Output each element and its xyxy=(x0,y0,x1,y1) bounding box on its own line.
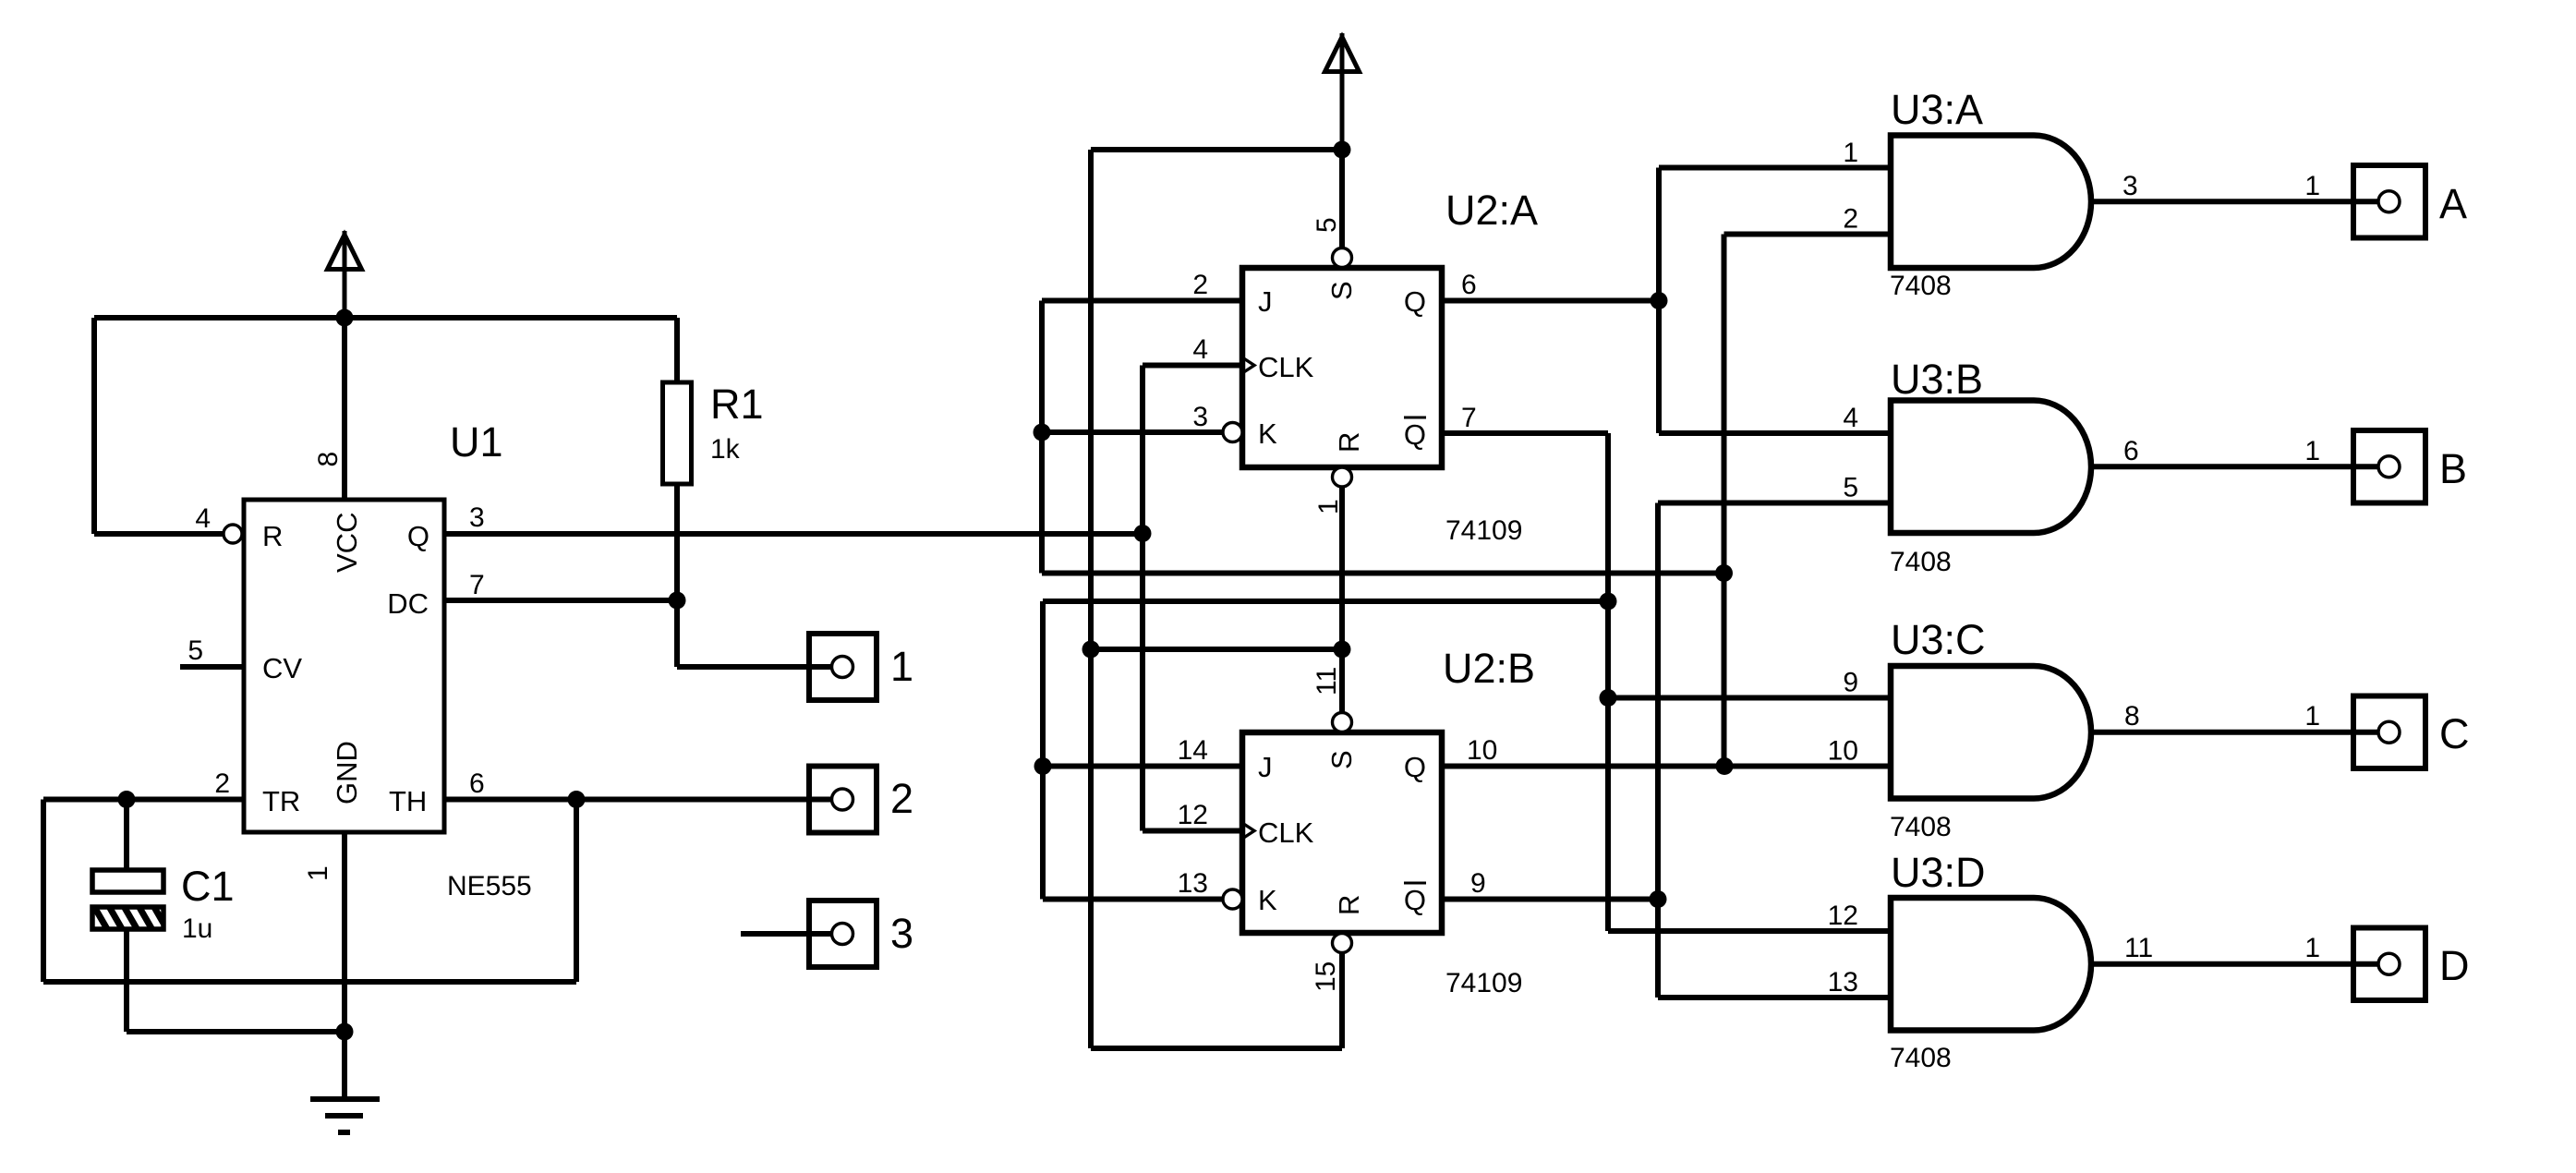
svg-text:10: 10 xyxy=(1467,735,1497,766)
svg-text:B: B xyxy=(2439,445,2467,492)
svg-text:2: 2 xyxy=(890,775,913,822)
wire pin15 return xyxy=(1091,1046,1342,1051)
svg-text:1: 1 xyxy=(2304,171,2320,201)
svg-text:12: 12 xyxy=(1178,800,1208,830)
wire U1 pin 7 (DC) xyxy=(444,598,677,603)
wire rail to pin 11 / pin 1 xyxy=(1091,647,1342,652)
wire to terminal 1 xyxy=(677,664,834,670)
svg-text:U3:D: U3:D xyxy=(1891,849,1986,896)
svg-text:10: 10 xyxy=(1828,736,1858,767)
AND gate U3:A 7408 xyxy=(1891,136,2091,269)
svg-text:2: 2 xyxy=(1843,204,1858,235)
svg-text:7408: 7408 xyxy=(1890,547,1952,577)
svg-text:S: S xyxy=(1325,750,1358,769)
junction TR / C1 xyxy=(118,791,136,808)
ground symbol xyxy=(310,1099,380,1132)
wire U3:C pin 8 output to terminal C xyxy=(2091,730,2377,735)
svg-text:1k: 1k xyxy=(710,434,741,465)
wire U1 pin 3 (Q) to flip-flop clocks xyxy=(444,531,1141,537)
svg-text:K: K xyxy=(1258,417,1277,450)
svg-text:K: K xyxy=(1258,884,1277,916)
wire U2:B pin 11 (S) xyxy=(1339,649,1345,713)
svg-text:1: 1 xyxy=(2304,436,2320,466)
svg-text:74109: 74109 xyxy=(1445,968,1522,998)
terminal A xyxy=(2353,165,2425,238)
AND gate U3:B 7408 xyxy=(1891,401,2091,534)
wire Q6 vertical xyxy=(1656,168,1662,434)
junction clock xyxy=(1134,525,1152,542)
svg-text:TR: TR xyxy=(262,785,300,817)
junction J14 xyxy=(1034,757,1052,775)
wire J2/K3 vertical xyxy=(1039,301,1045,574)
svg-text:8: 8 xyxy=(313,452,344,467)
svg-text:9: 9 xyxy=(1470,868,1486,899)
wire Qbar7 vertical xyxy=(1605,433,1611,931)
junction K3 xyxy=(1034,424,1051,441)
wire net J2/K3 to U3:A pin2 xyxy=(1042,571,1724,576)
U2:A K bubble xyxy=(1223,423,1242,442)
junction R1 / DC / terminal1 xyxy=(669,592,686,610)
U2:B S bubble xyxy=(1333,713,1352,732)
U2:B R bubble xyxy=(1333,934,1352,953)
wire to U1 pin 4 (R) xyxy=(94,531,224,537)
wire clock vertical xyxy=(1140,366,1145,831)
U2:A S bubble xyxy=(1333,248,1352,268)
flip-flop U2:B 74109 body xyxy=(1242,732,1442,933)
power symbol VCC (flip-flop S/R rail) xyxy=(1325,33,1360,150)
svg-text:8: 8 xyxy=(2124,701,2140,732)
wire U3:A pin 1 xyxy=(1659,165,1891,171)
power symbol VCC (555 rail) xyxy=(328,231,362,318)
svg-text:C1: C1 xyxy=(181,863,235,910)
svg-text:VCC: VCC xyxy=(331,513,363,573)
wire S/R rail vertical xyxy=(1088,150,1094,1048)
svg-text:1: 1 xyxy=(303,865,333,881)
capacitor C1 xyxy=(92,800,163,1033)
wire U2:B pin 12 (CLK) xyxy=(1143,828,1242,834)
terminal 3 xyxy=(809,901,877,967)
svg-text:R1: R1 xyxy=(710,381,764,428)
junction Qbar7 / U3:C pin9 xyxy=(1600,689,1617,707)
wire Qbar9 vertical xyxy=(1655,503,1661,998)
junction Q10 / net A xyxy=(1716,757,1734,775)
svg-text:J: J xyxy=(1258,751,1273,783)
svg-text:Q: Q xyxy=(407,520,429,552)
wire U2:A pin 4 (CLK) xyxy=(1143,363,1242,369)
wire U3:D pin 12 xyxy=(1608,928,1891,934)
wire U2:A pin 3 (K) xyxy=(1042,429,1223,435)
svg-text:GND: GND xyxy=(331,741,363,804)
wire U1 pin 6 (TH) to terminal 2 xyxy=(444,797,836,803)
wire U2:A pin 1 (R) xyxy=(1339,487,1345,649)
svg-text:5: 5 xyxy=(187,635,203,666)
wire U2:B pin 13 (K) xyxy=(1043,897,1223,902)
terminal B xyxy=(2353,430,2425,503)
svg-text:7408: 7408 xyxy=(1890,1043,1952,1073)
svg-text:5: 5 xyxy=(1312,217,1342,233)
svg-text:1: 1 xyxy=(890,643,913,690)
flip-flop U2:A 74109 body xyxy=(1242,268,1442,467)
svg-text:14: 14 xyxy=(1178,735,1208,766)
svg-text:TH: TH xyxy=(389,785,427,817)
svg-text:15: 15 xyxy=(1311,961,1341,992)
wire U3:B pin 5 xyxy=(1658,501,1891,506)
terminal 1 xyxy=(809,634,877,700)
junction pin1/pin11 xyxy=(1334,641,1351,659)
svg-text:9: 9 xyxy=(1843,668,1858,698)
svg-text:3: 3 xyxy=(469,502,485,533)
wire net J14/K13 horizontal xyxy=(1043,599,1608,604)
svg-text:R: R xyxy=(1333,895,1365,915)
terminal D xyxy=(2353,928,2425,1001)
terminal 2 xyxy=(809,767,877,833)
wire U3:D pin 11 output to terminal D xyxy=(2091,961,2377,967)
svg-text:CV: CV xyxy=(262,652,302,684)
junction Qbar7 / net C xyxy=(1600,593,1617,611)
svg-text:1: 1 xyxy=(2304,933,2320,963)
svg-text:D: D xyxy=(2439,942,2470,989)
svg-text:A: A xyxy=(2439,180,2467,227)
svg-text:7: 7 xyxy=(469,570,485,600)
svg-text:7408: 7408 xyxy=(1890,271,1952,301)
svg-text:1: 1 xyxy=(1843,138,1858,168)
wire U2:B pin 10 (Q) to U3:C pin10 xyxy=(1442,764,1891,769)
svg-text:13: 13 xyxy=(1828,967,1858,998)
wire U3:B pin 4 xyxy=(1659,430,1891,436)
svg-text:4: 4 xyxy=(1192,334,1208,365)
svg-text:1u: 1u xyxy=(182,913,212,944)
svg-text:74109: 74109 xyxy=(1445,515,1522,546)
svg-text:C: C xyxy=(2439,710,2470,757)
svg-text:U2:A: U2:A xyxy=(1445,187,1538,234)
wire TR loop vertical xyxy=(41,800,46,983)
svg-text:U3:C: U3:C xyxy=(1891,616,1986,663)
wire U3:B pin 6 output to terminal B xyxy=(2091,464,2377,469)
junction ground net xyxy=(336,1023,354,1041)
svg-text:CLK: CLK xyxy=(1258,816,1314,849)
svg-text:Q: Q xyxy=(1404,285,1426,318)
IC U1 NE555 body xyxy=(244,500,444,832)
svg-text:R: R xyxy=(1333,432,1365,453)
junction S/R rail xyxy=(1082,641,1100,659)
wire TH loop vertical xyxy=(574,800,579,983)
U2:B CLK edge marker xyxy=(1242,823,1254,839)
svg-text:Q: Q xyxy=(1404,418,1426,451)
U2:B K bubble xyxy=(1223,889,1242,909)
svg-text:11: 11 xyxy=(2124,933,2153,963)
wire terminal 3 stub xyxy=(741,931,834,937)
junction Q6 xyxy=(1651,292,1668,309)
svg-text:4: 4 xyxy=(1843,403,1858,433)
svg-text:3: 3 xyxy=(890,910,913,957)
svg-text:1: 1 xyxy=(2304,701,2320,732)
svg-text:2: 2 xyxy=(214,768,230,799)
svg-text:2: 2 xyxy=(1192,270,1208,300)
wire U3:A pin 2 xyxy=(1724,232,1892,237)
svg-text:4: 4 xyxy=(195,503,211,534)
U1 pin 4 inversion bubble xyxy=(224,525,242,543)
resistor R1 xyxy=(663,318,692,667)
svg-text:7: 7 xyxy=(1461,403,1477,433)
wire TR-TH loop bottom xyxy=(43,979,576,985)
wire U2:B pin 14 (J) xyxy=(1043,764,1242,769)
wire U1 pin 5 (CV) stub xyxy=(180,664,244,670)
wire U1 pin 1 (GND) xyxy=(342,832,347,1099)
wire J14/K13 vertical xyxy=(1040,601,1046,900)
wire U2:A pin 5 (S) xyxy=(1339,150,1345,248)
wire U2:A pin 2 (J) xyxy=(1042,298,1242,304)
U2:A R bubble xyxy=(1333,467,1352,487)
svg-text:6: 6 xyxy=(1461,270,1477,300)
svg-text:R: R xyxy=(262,520,283,552)
wire net A vertical to U3:A pin2 xyxy=(1722,235,1727,767)
svg-text:U3:A: U3:A xyxy=(1891,86,1983,133)
wire U2:B pin 9 (Qbar) xyxy=(1442,897,1658,902)
svg-text:NE555: NE555 xyxy=(447,871,532,901)
svg-text:7408: 7408 xyxy=(1890,812,1952,842)
wire U3:D pin 13 xyxy=(1658,995,1891,1000)
wire U2:A pin 6 (Q) xyxy=(1442,298,1659,304)
svg-text:U3:B: U3:B xyxy=(1891,356,1983,403)
svg-text:3: 3 xyxy=(2122,171,2138,201)
wire VCC2 to left rail xyxy=(1091,147,1342,152)
junction VCC rail / pin8 xyxy=(336,309,354,327)
wire U3:C pin 9 xyxy=(1608,695,1891,701)
wire U3:A pin 3 output to terminal A xyxy=(2091,199,2377,204)
svg-text:DC: DC xyxy=(387,587,429,620)
terminal C xyxy=(2353,696,2425,769)
wire U2:B pin 15 (R) xyxy=(1339,953,1345,1049)
junction TH / loop xyxy=(568,791,586,808)
svg-text:CLK: CLK xyxy=(1258,351,1314,383)
svg-text:3: 3 xyxy=(1192,402,1208,432)
wire C1 to ground net xyxy=(127,1029,345,1034)
junction Qbar9 xyxy=(1650,890,1667,908)
svg-text:Q: Q xyxy=(1404,751,1426,783)
AND gate U3:D 7408 xyxy=(1891,898,2091,1031)
wire left loop vertical xyxy=(91,318,97,534)
wire U1 pin 2 (TR) xyxy=(43,797,244,803)
svg-text:U2:B: U2:B xyxy=(1443,645,1535,692)
wire VCC rail horizontal xyxy=(94,315,677,320)
svg-text:13: 13 xyxy=(1178,868,1208,899)
wire U1 pin 8 (VCC) xyxy=(342,318,347,500)
svg-text:12: 12 xyxy=(1828,901,1858,931)
svg-text:11: 11 xyxy=(1312,667,1342,695)
wire U2:A pin 7 (Qbar) xyxy=(1442,430,1608,436)
AND gate U3:C 7408 xyxy=(1891,666,2091,799)
svg-text:J: J xyxy=(1258,285,1273,318)
svg-text:5: 5 xyxy=(1843,473,1858,503)
svg-text:S: S xyxy=(1325,281,1358,300)
svg-text:U1: U1 xyxy=(450,418,503,466)
U2:A CLK edge marker xyxy=(1242,357,1254,373)
svg-text:Q: Q xyxy=(1404,884,1426,916)
junction VCC2 xyxy=(1334,141,1351,159)
svg-text:6: 6 xyxy=(2123,436,2139,466)
junction net A xyxy=(1715,564,1733,582)
svg-text:6: 6 xyxy=(469,768,485,799)
